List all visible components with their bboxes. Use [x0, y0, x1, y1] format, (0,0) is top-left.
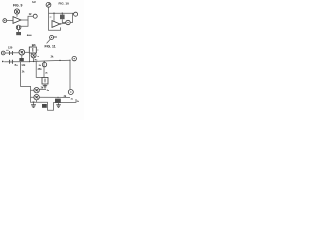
svg-text:FIG. 9: FIG. 9	[13, 4, 23, 8]
svg-text:25k: 25k	[38, 68, 43, 71]
svg-text:B+: B+	[15, 64, 19, 67]
svg-text:FIG. 11: FIG. 11	[45, 44, 56, 48]
svg-text:FIG. 10: FIG. 10	[59, 1, 70, 5]
svg-text:120: 120	[8, 46, 13, 50]
